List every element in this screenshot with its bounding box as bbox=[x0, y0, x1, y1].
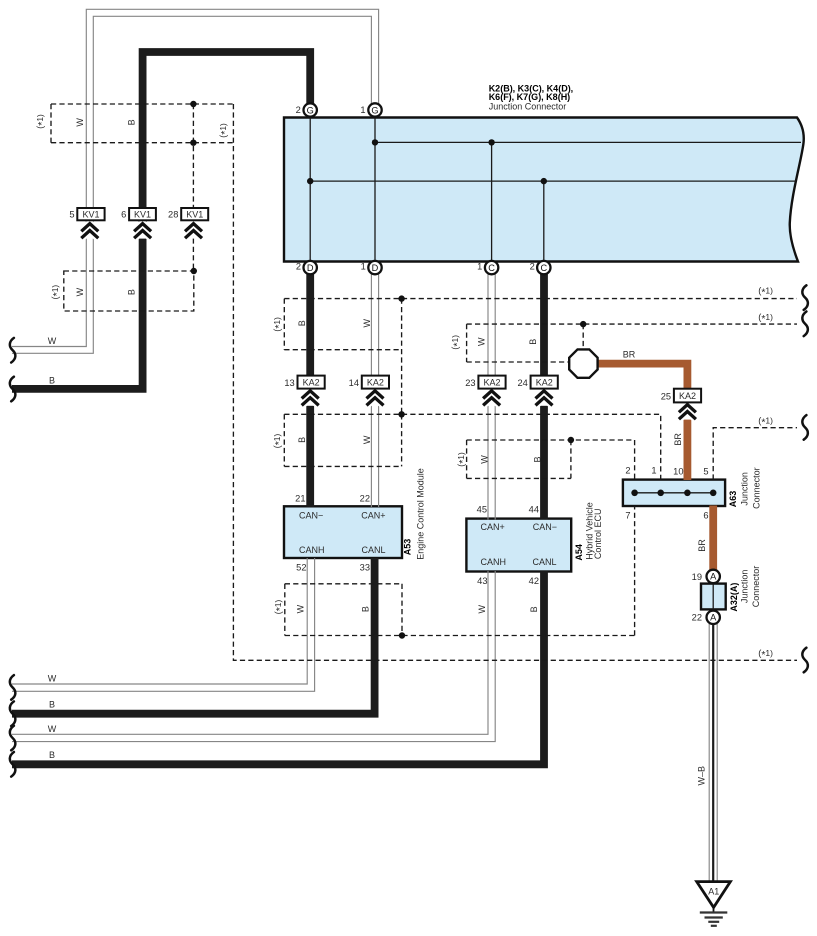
svg-text:C: C bbox=[540, 263, 547, 273]
svg-text:(*1): (*1) bbox=[50, 285, 63, 300]
svg-text:21: 21 bbox=[295, 494, 305, 504]
svg-text:1: 1 bbox=[651, 466, 656, 476]
svg-text:2: 2 bbox=[296, 261, 301, 271]
svg-text:C: C bbox=[488, 263, 495, 273]
svg-text:23: 23 bbox=[465, 378, 475, 388]
svg-text:(*1): (*1) bbox=[272, 433, 285, 448]
svg-text:BR: BR bbox=[673, 433, 683, 446]
svg-text:45: 45 bbox=[477, 504, 487, 514]
svg-text:A32(A): A32(A) bbox=[729, 583, 739, 612]
svg-text:2: 2 bbox=[296, 105, 301, 115]
svg-text:6: 6 bbox=[703, 511, 708, 521]
svg-text:(*1): (*1) bbox=[758, 648, 773, 661]
svg-text:7: 7 bbox=[625, 511, 630, 521]
svg-text:24: 24 bbox=[517, 378, 527, 388]
svg-text:5: 5 bbox=[69, 210, 74, 220]
svg-text:CAN+: CAN+ bbox=[361, 511, 385, 521]
svg-text:52: 52 bbox=[296, 563, 306, 573]
svg-text:KA2: KA2 bbox=[367, 377, 384, 387]
svg-text:KA2: KA2 bbox=[536, 377, 553, 387]
svg-text:33: 33 bbox=[360, 563, 370, 573]
svg-text:W: W bbox=[296, 604, 306, 613]
svg-text:B: B bbox=[49, 700, 55, 710]
svg-text:(*1): (*1) bbox=[758, 286, 773, 299]
svg-text:W: W bbox=[75, 287, 85, 296]
svg-text:A53: A53 bbox=[403, 539, 413, 556]
svg-text:Junction Connector: Junction Connector bbox=[489, 102, 567, 112]
svg-text:B: B bbox=[533, 456, 543, 462]
svg-text:B: B bbox=[528, 339, 538, 345]
svg-text:1: 1 bbox=[361, 261, 366, 271]
svg-text:B: B bbox=[529, 606, 539, 612]
svg-text:KA2: KA2 bbox=[303, 377, 320, 387]
svg-text:19: 19 bbox=[692, 572, 702, 582]
svg-text:(*1): (*1) bbox=[758, 415, 773, 428]
svg-text:CANL: CANL bbox=[533, 557, 557, 567]
svg-text:G: G bbox=[307, 105, 314, 115]
svg-text:A63: A63 bbox=[728, 491, 738, 508]
svg-text:D: D bbox=[307, 263, 314, 273]
svg-text:W: W bbox=[477, 605, 487, 614]
svg-text:Engine Control Module: Engine Control Module bbox=[416, 468, 426, 560]
svg-text:A54: A54 bbox=[574, 544, 584, 561]
svg-text:KV1: KV1 bbox=[134, 209, 151, 219]
svg-text:42: 42 bbox=[529, 576, 539, 586]
svg-text:BR: BR bbox=[697, 539, 707, 552]
svg-text:1: 1 bbox=[360, 105, 365, 115]
svg-text:2: 2 bbox=[625, 466, 630, 476]
svg-text:B: B bbox=[49, 750, 55, 760]
svg-text:10: 10 bbox=[673, 466, 683, 476]
svg-text:B: B bbox=[297, 437, 307, 443]
svg-text:22: 22 bbox=[360, 494, 370, 504]
svg-text:W–B: W–B bbox=[696, 766, 706, 786]
svg-text:W: W bbox=[362, 435, 372, 444]
svg-text:CANL: CANL bbox=[362, 545, 386, 555]
svg-text:KV1: KV1 bbox=[186, 209, 203, 219]
svg-text:25: 25 bbox=[661, 391, 671, 401]
svg-text:B: B bbox=[297, 320, 307, 326]
svg-text:D: D bbox=[372, 263, 379, 273]
svg-text:28: 28 bbox=[168, 210, 178, 220]
svg-text:1: 1 bbox=[477, 261, 482, 271]
svg-text:(*1): (*1) bbox=[35, 114, 48, 129]
svg-text:44: 44 bbox=[529, 504, 539, 514]
svg-text:CAN−: CAN− bbox=[533, 522, 557, 532]
svg-text:B: B bbox=[49, 376, 55, 386]
svg-text:W: W bbox=[362, 318, 372, 327]
svg-text:A: A bbox=[710, 572, 717, 582]
svg-text:(*1): (*1) bbox=[758, 312, 773, 325]
svg-text:W: W bbox=[48, 674, 57, 684]
svg-text:13: 13 bbox=[284, 378, 294, 388]
svg-text:KA2: KA2 bbox=[679, 391, 696, 401]
svg-text:Junction: Junction bbox=[740, 472, 750, 506]
svg-text:Connector: Connector bbox=[752, 467, 762, 509]
svg-text:Junction: Junction bbox=[740, 570, 750, 604]
svg-text:(*1): (*1) bbox=[272, 317, 285, 332]
svg-text:B: B bbox=[126, 289, 136, 295]
svg-text:B: B bbox=[126, 119, 136, 125]
svg-text:CANH: CANH bbox=[299, 545, 325, 555]
svg-text:W: W bbox=[48, 724, 57, 734]
svg-text:22: 22 bbox=[692, 613, 702, 623]
svg-text:(*1): (*1) bbox=[218, 123, 231, 138]
svg-text:6: 6 bbox=[121, 210, 126, 220]
svg-text:W: W bbox=[477, 337, 487, 346]
svg-text:W: W bbox=[75, 118, 85, 127]
svg-text:Connector: Connector bbox=[751, 566, 761, 608]
svg-text:2: 2 bbox=[530, 261, 535, 271]
svg-text:KA2: KA2 bbox=[483, 377, 500, 387]
svg-text:5: 5 bbox=[703, 466, 708, 476]
svg-text:A1: A1 bbox=[708, 887, 719, 897]
svg-text:G: G bbox=[371, 105, 378, 115]
svg-text:W: W bbox=[48, 336, 57, 346]
svg-text:CANH: CANH bbox=[481, 557, 507, 567]
svg-text:A: A bbox=[710, 613, 717, 623]
svg-text:Control ECU: Control ECU bbox=[593, 509, 603, 560]
svg-text:CAN+: CAN+ bbox=[481, 522, 505, 532]
svg-text:W: W bbox=[480, 455, 490, 464]
svg-text:14: 14 bbox=[349, 378, 359, 388]
svg-text:CAN−: CAN− bbox=[299, 511, 323, 521]
svg-text:B: B bbox=[361, 606, 371, 612]
svg-text:(*1): (*1) bbox=[450, 335, 463, 350]
svg-text:KV1: KV1 bbox=[82, 209, 99, 219]
svg-text:43: 43 bbox=[477, 576, 487, 586]
svg-text:BR: BR bbox=[623, 350, 636, 360]
